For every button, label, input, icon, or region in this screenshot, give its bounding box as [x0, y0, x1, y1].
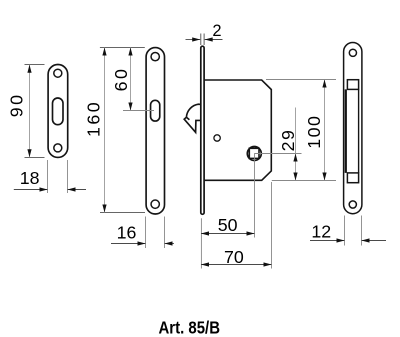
dimension 12 arrow right: [337, 238, 345, 242]
dimension 12 line left tail: [310, 240, 345, 242]
dimension 70 extension line right: [271, 182, 273, 269]
dimension 100 extension line bottom: [272, 180, 336, 182]
dimension 160 arrow down: [102, 205, 106, 213]
svg-text:Art. 85/B: Art. 85/B: [159, 317, 221, 337]
svg-text:29: 29: [278, 129, 298, 152]
dimension 12 arrow left: [362, 238, 370, 242]
dimension 50 extension line right: [254, 154, 256, 238]
dimension 50 line: [201, 233, 255, 235]
dimension 16 extension line left: [145, 217, 147, 249]
dimension 18 extension line left: [47, 160, 49, 193]
dimension 2 arrow left: [205, 37, 213, 41]
dimension 2 extension tick left: [200, 34, 202, 46]
svg-text:18: 18: [20, 168, 40, 188]
lock case outline: [204, 80, 271, 180]
strike box bottom lip frame: [347, 173, 358, 183]
dimension 50 arrow right: [247, 231, 255, 235]
strike box recessed channel thick left wall: [345, 89, 347, 172]
dimension 2 arrow right: [192, 37, 200, 41]
dimension 160 line: [104, 48, 106, 213]
svg-text:60: 60: [111, 67, 131, 92]
dimension 70 arrow right: [264, 262, 272, 266]
dimension 2 extension tick right: [203, 34, 205, 46]
dimension 60 line: [130, 48, 132, 111]
dimension 12 extension line left: [344, 216, 346, 246]
dimension 16 arrow right: [138, 241, 146, 245]
dimension 12 extension line right: [361, 216, 363, 246]
dimension 16 line left tail: [111, 243, 146, 245]
strike box outline: [344, 43, 362, 214]
dimension 90 line: [29, 65, 31, 157]
svg-text:160: 160: [84, 100, 104, 137]
dimension 100 arrow up: [322, 80, 326, 88]
follower square spindle: [249, 148, 259, 158]
dimension 12 line right tail: [362, 240, 387, 242]
dimension 90 extension line bottom: [25, 157, 45, 159]
dimension 50 extension line left: [200, 218, 202, 268]
follower circle: [247, 147, 261, 161]
small flush plate outline: [48, 65, 68, 158]
dimension 90 arrow up: [27, 65, 31, 73]
dimension 29 extension line from follower: [254, 153, 301, 155]
dimension 160 arrow up: [102, 48, 106, 56]
dimension 160 extension line bottom: [100, 212, 145, 214]
strike box top lip frame: [347, 80, 358, 90]
dimension 16 extension line right: [164, 217, 166, 249]
long flush plate outline: [146, 48, 164, 214]
strike box top screw hole: [349, 49, 356, 56]
svg-text:70: 70: [224, 247, 244, 267]
dimension 29 line: [295, 108, 297, 181]
svg-text:12: 12: [311, 221, 331, 241]
small plate slot: [53, 98, 64, 125]
dimension 18 line left tail: [14, 189, 48, 191]
strike box bottom screw hole: [349, 201, 356, 208]
dimension 60 extension line at slot centre: [123, 110, 154, 112]
long plate bottom screw hole: [151, 200, 159, 208]
dimension 16 arrow left: [165, 241, 173, 245]
dimension 29 arrow down: [293, 173, 297, 181]
dimension 100 line: [324, 80, 326, 181]
dimension 100 extension line top: [266, 79, 336, 81]
dimension 90 extension line top: [25, 64, 45, 66]
small plate bottom screw hole: [54, 144, 62, 152]
dimension 60 arrow down: [128, 103, 132, 111]
dimension 60 arrow up: [128, 48, 132, 56]
dimension 16 line right tail: [165, 243, 175, 245]
svg-text:16: 16: [117, 223, 137, 243]
dimension 29 arrow up: [293, 154, 297, 162]
long plate top screw hole: [151, 52, 159, 60]
svg-text:50: 50: [218, 215, 238, 235]
svg-text:2: 2: [212, 22, 221, 40]
dimension 160 extension line top: [100, 47, 145, 49]
dimension 70 line: [201, 264, 272, 266]
case screw hole: [214, 135, 220, 141]
long plate slot: [151, 100, 160, 121]
dimension 50 arrow left: [201, 231, 209, 235]
dimension 90 arrow down: [27, 149, 31, 157]
strike box recessed channel right wall: [358, 89, 360, 172]
hook bolt: [184, 104, 201, 132]
dimension 70 arrow left: [201, 262, 209, 266]
small plate top screw hole: [54, 69, 62, 77]
dimension 2 line left tail: [186, 39, 201, 41]
svg-text:90: 90: [7, 93, 27, 118]
dimension 18 arrow right: [40, 187, 48, 191]
dimension 100 arrow down: [322, 173, 326, 181]
dimension 2 line right tail: [205, 39, 223, 41]
lock faceplate (front strip): [201, 46, 204, 214]
dimension 18 extension line right: [67, 160, 69, 193]
svg-text:100: 100: [304, 115, 324, 149]
dimension 18 line right tail: [68, 189, 87, 191]
dimension 18 arrow left: [68, 187, 76, 191]
